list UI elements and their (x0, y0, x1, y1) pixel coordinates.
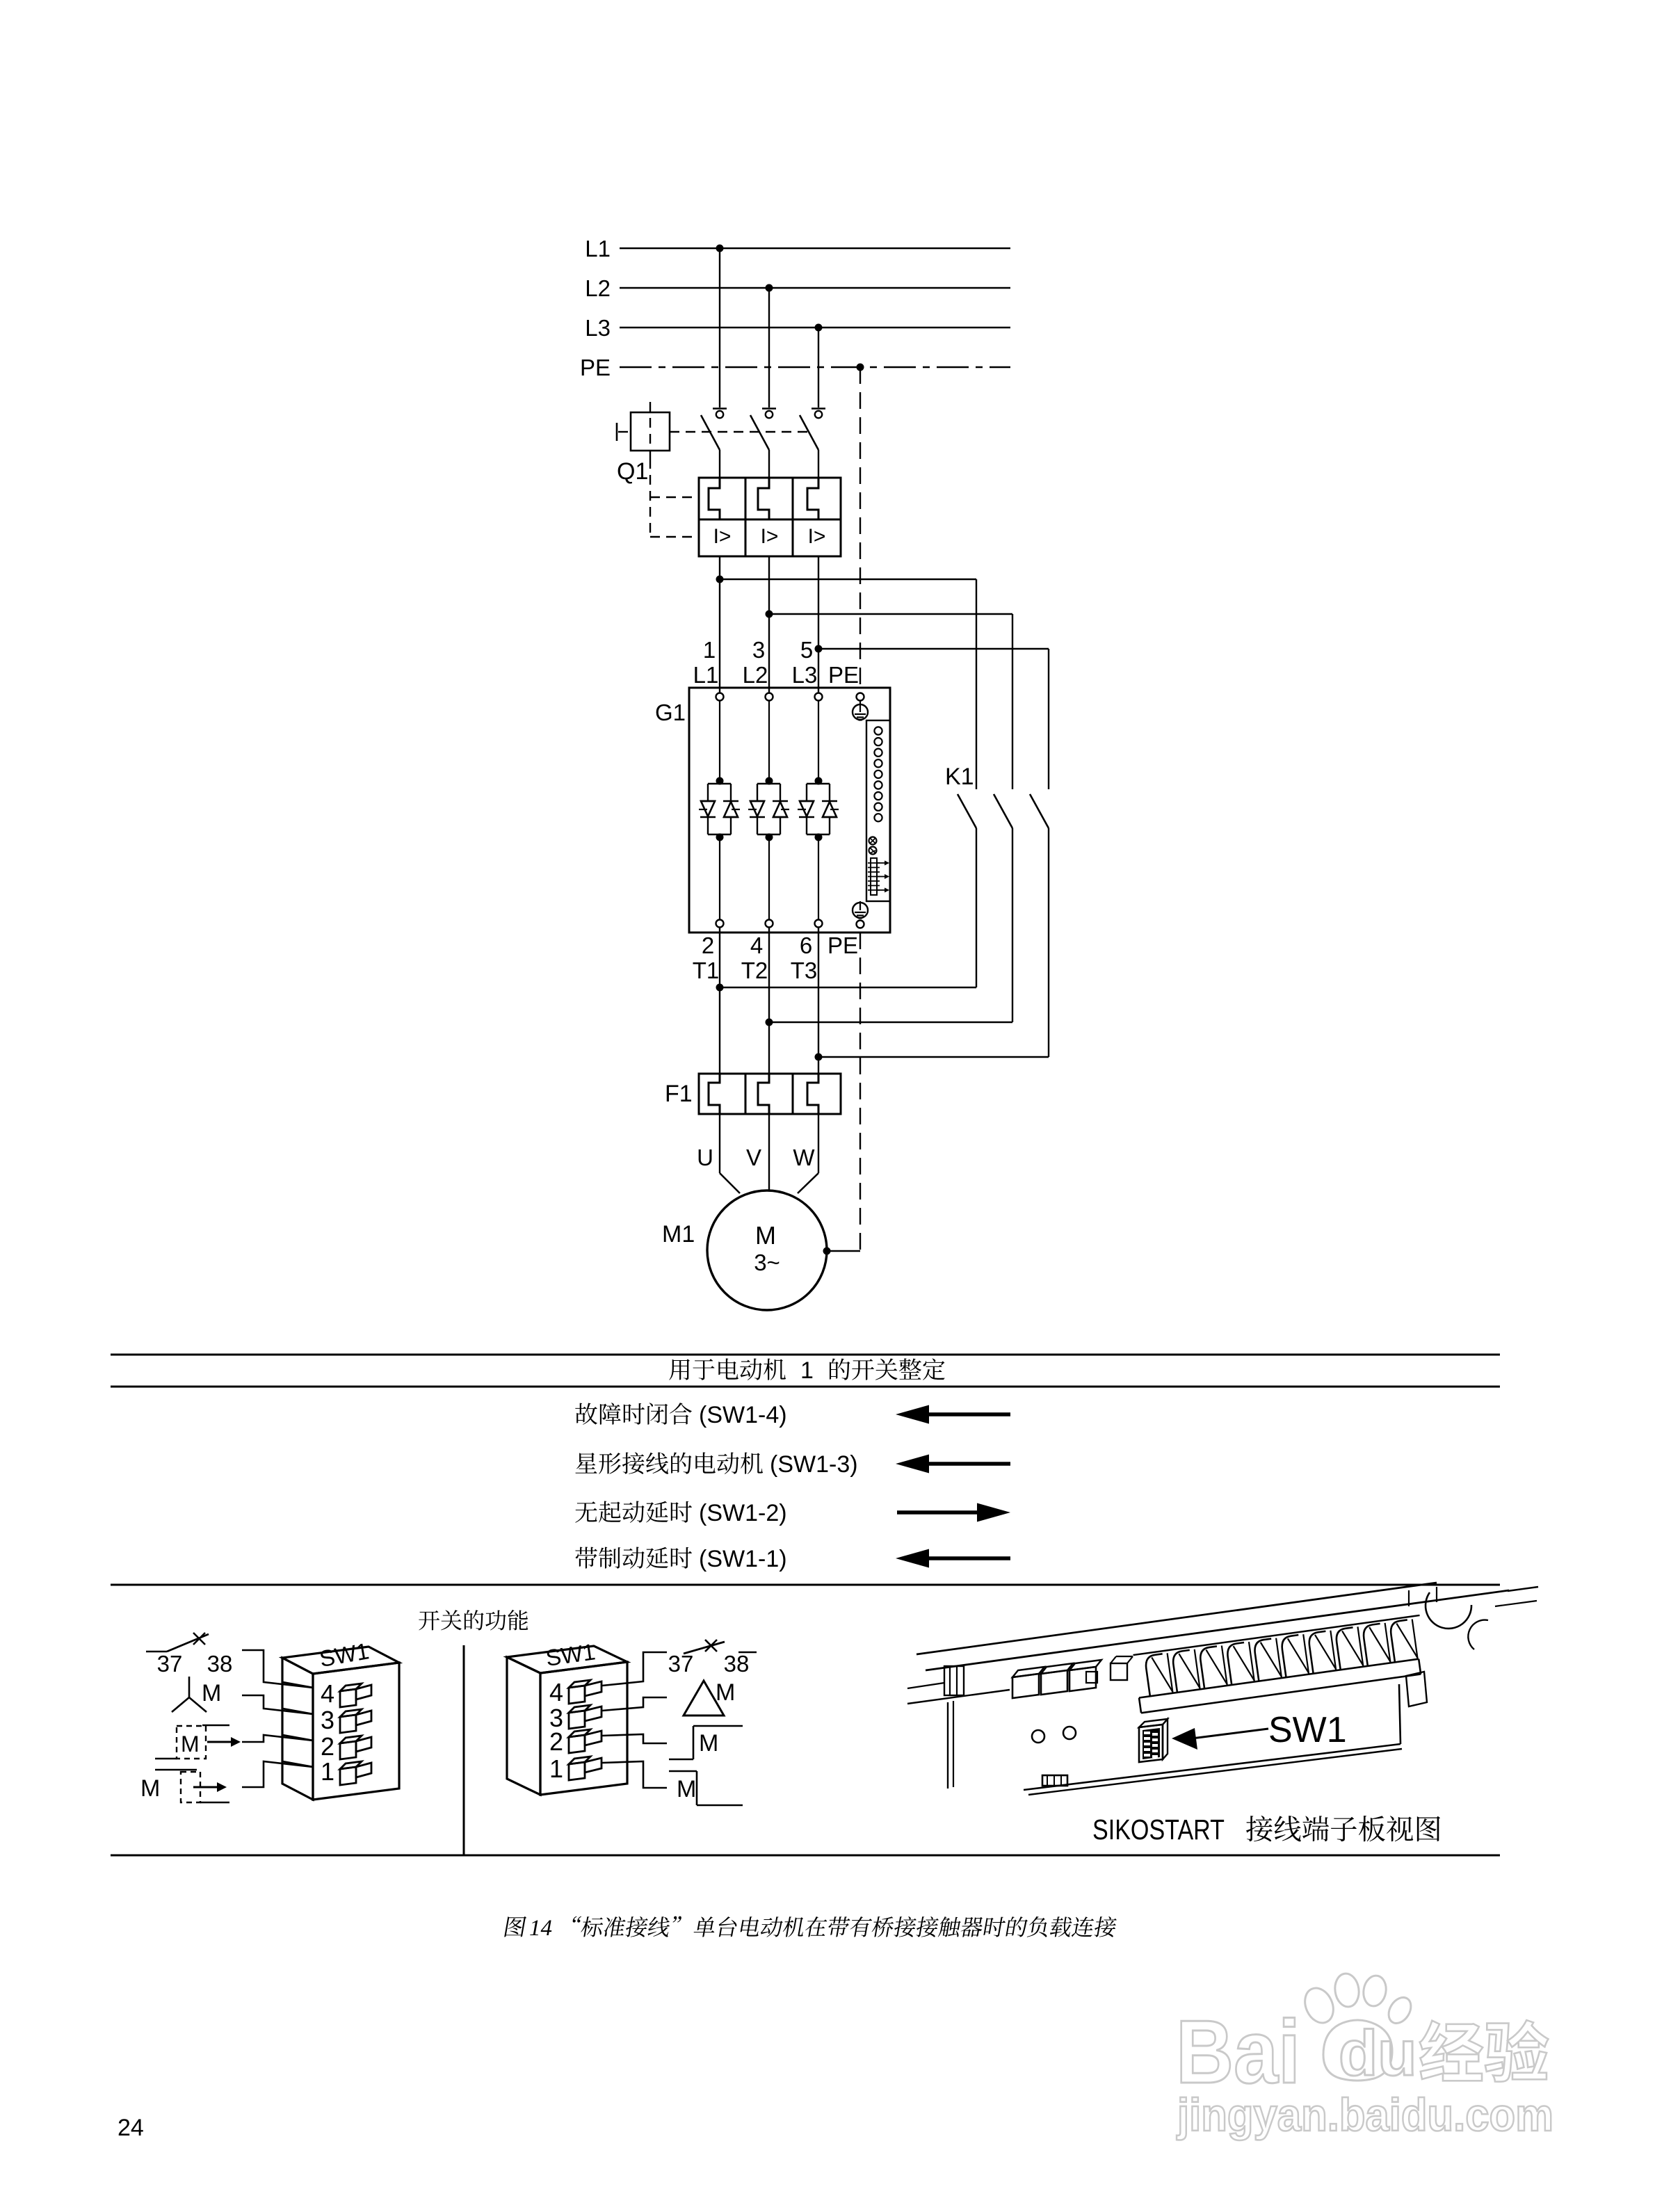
terminal label T3 (791, 958, 818, 983)
svg-text:W: W (793, 1145, 815, 1170)
F1 thermal element 1 (709, 1074, 720, 1114)
svg-text:K1: K1 (945, 764, 974, 790)
wire pole1 Q1 to G1 (719, 556, 720, 693)
node PE bus line (dash-dot) (620, 366, 1010, 369)
junction T2 to K1 (766, 1019, 1013, 1026)
terminal clamp 7 (1308, 1631, 1337, 1674)
wire to left switch 3 (242, 1695, 313, 1714)
svg-text:L3: L3 (585, 315, 611, 341)
SW1 panel edges (1024, 1672, 1427, 1795)
svg-text:1: 1 (800, 1357, 814, 1384)
terminal clamp 9 (1362, 1623, 1391, 1666)
label L2 (585, 275, 611, 301)
svg-text:T2: T2 (741, 958, 768, 983)
control terminal circle 6 (874, 781, 882, 789)
svg-text:L3: L3 (792, 662, 818, 688)
row text 故障时闭合 (SW1-4) (575, 1402, 786, 1428)
right block switch 3 (549, 1704, 602, 1732)
terminal label L1 (693, 662, 719, 688)
thermal release hook pole 1 (709, 478, 720, 519)
G1 PE output terminal (857, 921, 864, 928)
motor M1 circle (707, 1190, 827, 1310)
board right end arcs (1426, 1587, 1538, 1649)
terminal label L2 (743, 662, 768, 688)
label Q1 (617, 458, 648, 485)
SW1 pointer arrow (1172, 1728, 1268, 1750)
circuit-breaker Q1 operator box (with dashed linkage) (617, 402, 809, 537)
G1 input terminal 3 (766, 693, 773, 701)
SW1 DIP component on board (1139, 1719, 1168, 1762)
table header: switch settings for motor 1 (669, 1357, 944, 1384)
star connection symbol with M (left) (172, 1677, 221, 1712)
terminal number 1 (703, 637, 716, 663)
soft-starter G1 enclosure (689, 688, 890, 933)
step-down M symbol (left, brake command) (140, 1770, 229, 1802)
svg-text:M: M (699, 1730, 718, 1757)
label SW1 on right block (544, 1638, 597, 1671)
terminal clamp 1 (1145, 1653, 1173, 1696)
svg-text:M: M (140, 1775, 160, 1802)
DIP switch block SW1 right (3D) (507, 1646, 627, 1795)
magnetic release I> pole 1 (713, 525, 732, 548)
board cover top edges (917, 1583, 1509, 1670)
terminal clamp 5 (1253, 1638, 1282, 1681)
terminal clamp 4 (1226, 1642, 1254, 1685)
wire to left switch 1 (242, 1761, 313, 1787)
svg-text:4: 4 (321, 1679, 334, 1708)
wire pole3 Q1 to G1 (818, 556, 819, 693)
wire T2 to F1 (768, 928, 770, 1074)
svg-text:(SW1-3): (SW1-3) (770, 1451, 858, 1478)
svg-text:1: 1 (321, 1757, 334, 1786)
wire T3 to F1 (818, 928, 819, 1074)
left cubes on board (1012, 1667, 1044, 1698)
F1 thermal element 3 (807, 1074, 818, 1114)
svg-text:du: du (1339, 2018, 1416, 2089)
wire U to motor (720, 1114, 740, 1193)
svg-text:(SW1-2): (SW1-2) (699, 1500, 787, 1526)
row text 星形接线的电动机 (SW1-3) (575, 1451, 857, 1478)
label F1 (665, 1081, 693, 1107)
wire pole2 Q1 to G1 (768, 556, 770, 693)
wire L2 drop to Q1 (768, 288, 770, 407)
svg-text:T3: T3 (791, 958, 818, 983)
label M1 (662, 1221, 695, 1248)
junction pole1 to K1 (716, 576, 977, 583)
junction on L1 (716, 245, 724, 252)
step-down M symbol (right) (669, 1771, 743, 1805)
control terminal circle 9 (874, 814, 882, 821)
terminal clamp 6 (1281, 1634, 1309, 1677)
svg-text:Bai: Bai (1176, 2002, 1300, 2102)
svg-text:L2: L2 (585, 275, 611, 301)
control terminal circle 4 (874, 759, 882, 767)
terminal number 6 (800, 933, 812, 958)
label L3 (585, 315, 611, 341)
svg-text:G1: G1 (655, 700, 686, 725)
wire to left switch 2 (242, 1735, 313, 1742)
junction pole2 to K1 (766, 611, 1013, 618)
node L3 bus line (620, 327, 1010, 329)
G1 connector with arrows (868, 858, 889, 895)
svg-text:14: 14 (529, 1916, 552, 1941)
watermark paw print (1300, 1972, 1415, 2081)
wire to right switch 3 (602, 1697, 667, 1711)
SIKOSTART terminal board perspective view (907, 1583, 1538, 1795)
svg-text:37: 37 (157, 1651, 183, 1677)
terminal clamp 3 (1199, 1645, 1227, 1688)
label G1 (655, 700, 686, 725)
label SW1 big (1268, 1710, 1347, 1750)
svg-text:5: 5 (800, 637, 813, 663)
G1 input terminal 5 (815, 693, 823, 701)
wire L3 drop to Q1 (818, 328, 819, 407)
magnetic release I> pole 3 (808, 525, 826, 548)
left bracket detail (907, 1666, 1010, 1789)
wire V to motor (768, 1114, 770, 1190)
watermark jingyan.baidu.com (1176, 2089, 1553, 2140)
contactor K1 pole 3 (1030, 649, 1049, 1057)
label: function of switches (419, 1610, 528, 1631)
junction on PE (857, 364, 864, 371)
terminal label PE bottom (827, 933, 858, 958)
board hole 2 (1063, 1727, 1076, 1739)
thermal release hook pole 3 (807, 478, 818, 519)
svg-text:M: M (716, 1679, 735, 1706)
G1 output terminal 6 (815, 920, 823, 928)
G1 output terminal 2 (716, 920, 724, 928)
wire L1 drop to Q1 (719, 248, 720, 407)
thyristor pair phase 1 (699, 701, 740, 919)
control terminal circle 5 (874, 770, 882, 778)
delta connection symbol with M (right) (684, 1679, 735, 1715)
breaker pole 2 contact (750, 409, 776, 478)
svg-text:L1: L1 (693, 662, 719, 688)
PE dashed wire to motor (823, 933, 861, 1255)
watermark jingyan characters (1420, 2020, 1549, 2081)
DIP switch block SW1 left (3D) (282, 1647, 399, 1800)
svg-text:V: V (746, 1145, 761, 1170)
figure caption 图 14 (504, 1916, 1117, 1941)
motor letter M (755, 1221, 776, 1250)
svg-text:SIKOSTART: SIKOSTART (1092, 1814, 1225, 1846)
magnetic release I> pole 2 (761, 525, 779, 548)
terminal number 3 (752, 637, 765, 663)
svg-text:6: 6 (800, 933, 812, 958)
wire W to motor (798, 1114, 818, 1193)
lamp symbol 2 (869, 847, 877, 855)
label K1 (945, 764, 974, 790)
svg-text:3: 3 (321, 1706, 334, 1734)
wire to left switch 4 (242, 1650, 313, 1688)
step-up M symbol (left, run command) (155, 1725, 241, 1760)
left block switch 2 (321, 1732, 371, 1761)
svg-text:jingyan.baidu.com: jingyan.baidu.com (1176, 2089, 1553, 2140)
page number 24 (118, 2115, 144, 2141)
left block switch 4 (321, 1679, 371, 1708)
control terminal circle 7 (874, 792, 882, 800)
terminal number 4 (750, 933, 763, 958)
arrow SW1-3 (896, 1455, 1010, 1474)
svg-text:4: 4 (750, 933, 763, 958)
overload relay F1 box (699, 1074, 841, 1114)
small posts on board (1086, 1656, 1133, 1683)
terminals 37 38 with contact (right) (668, 1640, 757, 1677)
table rule top (111, 1354, 1500, 1356)
watermark du text (1339, 2018, 1416, 2089)
terminal label PE top (828, 662, 859, 688)
terminal clamp 2 (1172, 1649, 1200, 1693)
wire T1 to F1 (719, 928, 720, 1074)
terminal clamp 10 (1389, 1619, 1418, 1662)
wire to right switch 4 (602, 1652, 667, 1686)
left block switch 3 (321, 1706, 371, 1734)
svg-text:1: 1 (703, 637, 716, 663)
svg-text:38: 38 (207, 1651, 233, 1677)
svg-text:M: M (181, 1731, 200, 1757)
svg-text:M: M (677, 1776, 696, 1802)
svg-text:(SW1-1): (SW1-1) (699, 1546, 787, 1572)
table rule under header (111, 1386, 1500, 1388)
svg-text:3: 3 (752, 637, 765, 663)
wire to right switch 1 (602, 1761, 667, 1788)
G1 PE earth symbol bottom (853, 901, 868, 919)
arrow SW1-1 (896, 1549, 1010, 1568)
divider between switch diagrams (463, 1645, 465, 1855)
right block switch 2 (549, 1727, 602, 1756)
node L2 bus line (620, 287, 1010, 289)
breaker pole 3 contact (800, 409, 825, 478)
G1 PE earth symbol top (853, 701, 868, 720)
label PE (580, 355, 611, 380)
node L1 bus line (620, 248, 1010, 250)
arrow SW1-2 (897, 1503, 1010, 1522)
svg-text:2: 2 (549, 1727, 563, 1756)
terminal label T1 (693, 958, 720, 983)
G1 control terminal strip (866, 720, 890, 901)
Q1 thermal-magnetic trip unit box (699, 478, 841, 556)
svg-text:T1: T1 (693, 958, 720, 983)
svg-text:PE: PE (827, 933, 858, 958)
row text 带制动延时 (SW1-1) (575, 1546, 786, 1572)
label SW1 on left block (318, 1638, 371, 1672)
svg-text:1: 1 (549, 1754, 563, 1783)
control terminal circle 2 (874, 738, 882, 745)
svg-text:F1: F1 (665, 1081, 693, 1107)
junction T1 to K1 (716, 984, 977, 992)
wire PE drop (dashed) to G1 (859, 367, 861, 693)
control terminal circle 8 (874, 803, 882, 811)
svg-text:3~: 3~ (754, 1250, 780, 1275)
svg-text:4: 4 (549, 1678, 563, 1706)
G1 PE input terminal (857, 693, 864, 701)
control terminal circle 1 (874, 727, 882, 734)
breaker pole 1 contact (701, 409, 727, 478)
svg-text:24: 24 (118, 2115, 144, 2141)
label W (793, 1145, 815, 1170)
thermal release hook pole 2 (758, 478, 769, 519)
svg-text:2: 2 (321, 1732, 334, 1761)
terminal number 5 (800, 637, 813, 663)
G1 input terminal 1 (716, 693, 724, 701)
watermark Baidu logo text (1176, 2002, 1300, 2102)
right block switch 1 (549, 1754, 602, 1783)
svg-text:SW1: SW1 (1268, 1710, 1347, 1750)
thyristor pair phase 2 (748, 701, 789, 919)
left block switch 1 (321, 1757, 371, 1786)
right block switch 4 (549, 1678, 602, 1706)
svg-text:M: M (202, 1680, 221, 1706)
junction on L3 (815, 324, 823, 332)
terminals 37 38 with contact (left) (146, 1633, 232, 1677)
label L1 (585, 236, 611, 261)
table rule under rows (111, 1584, 1500, 1586)
thyristor pair phase 3 (798, 701, 839, 919)
contactor K1 pole 2 (994, 614, 1012, 1022)
svg-text:M: M (755, 1221, 776, 1250)
motor letter 3~ (754, 1250, 780, 1275)
svg-text:37: 37 (668, 1651, 694, 1677)
small connector bottom left of board (1042, 1775, 1067, 1786)
board hole 1 (1032, 1730, 1044, 1743)
svg-text:(SW1-4): (SW1-4) (699, 1402, 787, 1428)
junction pole3 to K1 (815, 645, 1049, 653)
wire to right switch 2 (602, 1734, 667, 1743)
label V (746, 1145, 761, 1170)
terminal label L3 (792, 662, 818, 688)
junction on L2 (766, 284, 773, 292)
svg-text:PE: PE (828, 662, 859, 688)
svg-text:2: 2 (702, 933, 714, 958)
svg-text:I>: I> (808, 525, 826, 548)
G1 output terminal 4 (766, 920, 773, 928)
svg-text:I>: I> (713, 525, 732, 548)
svg-text:U: U (697, 1145, 713, 1170)
row text 无起动延时 (SW1-2) (575, 1500, 786, 1526)
junction T3 to K1 (815, 1053, 1049, 1061)
svg-text:L2: L2 (743, 662, 768, 688)
svg-text:I>: I> (761, 525, 779, 548)
svg-text:Q1: Q1 (617, 458, 648, 485)
caption: SIKOSTART terminal board view (1092, 1814, 1440, 1846)
terminal clamp 8 (1335, 1626, 1364, 1670)
terminal number 2 (702, 933, 714, 958)
svg-text:PE: PE (580, 355, 611, 380)
svg-text:38: 38 (724, 1651, 750, 1677)
lamp symbol 1 (869, 837, 877, 845)
label U (697, 1145, 713, 1170)
svg-text:M1: M1 (662, 1221, 695, 1248)
svg-text:L1: L1 (585, 236, 611, 261)
arrow SW1-4 (896, 1405, 1010, 1424)
terminal strip base (1133, 1615, 1428, 1713)
F1 thermal element 2 (758, 1074, 769, 1114)
control terminal circle 3 (874, 749, 882, 757)
step-up M symbol (right) (669, 1726, 743, 1759)
contactor K1 pole 1 (958, 579, 976, 987)
table rule bottom (111, 1855, 1500, 1857)
terminal label T2 (741, 958, 768, 983)
